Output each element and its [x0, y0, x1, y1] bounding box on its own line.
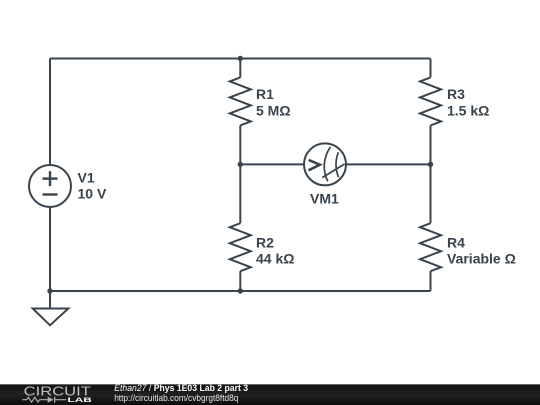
wire bottom horizontal	[50, 290, 431, 292]
svg-text:LAB: LAB	[68, 397, 93, 404]
wire R4 bottom lead	[430, 271, 432, 291]
resistor R1	[230, 77, 251, 125]
node B junction dot (mid middle)	[238, 162, 243, 167]
svg-text:R3: R3	[447, 86, 465, 102]
svg-text:44 kΩ: 44 kΩ	[256, 250, 294, 266]
svg-text:R2: R2	[256, 234, 274, 250]
wire node C to R4	[430, 164, 432, 223]
wire R3 to node C	[430, 125, 432, 164]
svg-text:1.5 kΩ: 1.5 kΩ	[447, 102, 489, 118]
voltage source V1	[29, 165, 71, 207]
wire node B to R2	[239, 164, 241, 223]
resistor R2	[230, 223, 251, 271]
ground junction dot	[47, 288, 52, 293]
svg-text:Variable Ω: Variable Ω	[447, 250, 516, 266]
voltmeter VM1	[304, 143, 346, 185]
svg-text:R1: R1	[256, 86, 274, 102]
node A junction dot (top middle)	[238, 56, 243, 61]
wire left vertical upper	[49, 59, 51, 166]
CircuitLab logo schematic squiggle	[22, 397, 66, 403]
bottom middle junction dot	[238, 288, 243, 293]
node C junction dot (mid right)	[428, 162, 433, 167]
svg-text:10 V: 10 V	[78, 186, 107, 202]
CircuitLab logo diode	[48, 397, 54, 403]
footer bar	[0, 384, 540, 405]
wire right column upper lead	[430, 59, 432, 78]
wire middle column upper lead	[239, 59, 241, 78]
wire left vertical lower	[49, 207, 51, 291]
wire node B to voltmeter	[240, 163, 304, 165]
svg-text:http://circuitlab.com/cvbgrgt8: http://circuitlab.com/cvbgrgt8ftd8q	[114, 393, 238, 403]
wire R1 to node B	[239, 125, 241, 164]
resistor R3	[420, 77, 441, 125]
wire R2 bottom lead	[239, 271, 241, 291]
wire voltmeter to node C	[346, 163, 431, 165]
resistor R4	[420, 223, 441, 271]
svg-text:R4: R4	[447, 234, 465, 250]
svg-text:V1: V1	[78, 170, 95, 186]
svg-text:Ethan27 / Phys 1E03 Lab 2 part: Ethan27 / Phys 1E03 Lab 2 part 3	[114, 383, 248, 393]
wire top horizontal	[50, 58, 431, 60]
svg-text:VM1: VM1	[310, 190, 339, 206]
ground	[33, 291, 69, 325]
svg-text:5 MΩ: 5 MΩ	[256, 102, 291, 118]
